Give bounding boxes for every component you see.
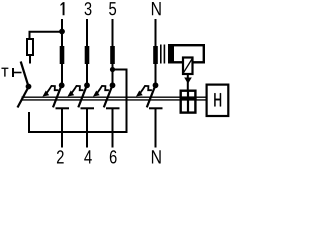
wire pole 1 lower [61,109,63,148]
CT core double line [22,96,206,98]
fixed contact pole N [149,107,163,109]
test switch blade upper [21,62,29,87]
label H indicator [214,93,221,106]
node pole 5 pivot [110,82,116,88]
switching mechanism box [181,91,196,113]
CT secondary winding box [169,45,204,62]
terminal label 3 [85,2,92,15]
release arrow pole 5 [93,86,109,97]
contact blade pole 3 [78,86,86,107]
CT primary bar pole 3 [85,46,90,64]
contact blade pole 5 [104,86,112,107]
node pole1 test tap [59,29,65,35]
release arrow pole N [136,86,152,97]
wire test bottom bus [28,70,127,133]
wire pole 5 lower [112,109,114,148]
wire pole 1 upper [61,19,63,85]
node pole 3 pivot [84,82,90,88]
wire pole 3 lower [86,109,88,148]
test button actuator [12,68,14,77]
wire test fixed contact [28,112,30,132]
trip relay K [183,58,193,75]
test switch blade lower [18,88,29,108]
indicator H box [207,85,229,116]
fixed contact pole 1 [56,107,70,109]
CT core lines at N [160,45,162,64]
terminal label 6 [110,150,117,163]
terminal label N top [152,2,161,15]
wire pole N upper [155,19,157,85]
terminal label 5 [109,2,116,15]
terminal label 1 [61,2,65,15]
CT primary bar pole 1 [60,46,65,64]
node pole 1 pivot [59,82,65,88]
release arrow pole 3 [68,86,84,97]
release arrow pole 1 [43,86,59,97]
wire pole 5 upper [112,19,114,85]
terminal label 4 [84,150,92,163]
actuation arrow to mechanism [187,75,189,91]
fixed contact pole 3 [81,107,95,109]
CT primary bar pole 5 [110,46,115,64]
fixed contact pole 5 [106,107,120,109]
contact blade pole N [147,86,155,107]
contact blade pole 1 [53,86,61,107]
wire resistor lower stub [29,55,31,64]
node pole5 test tap [110,67,115,72]
node test switch pivot [26,84,32,90]
CT primary bar pole N [153,46,158,64]
resistor test [27,39,33,55]
label T test button [2,68,9,77]
wire pole N lower [155,109,157,148]
node pole N pivot [153,82,159,88]
wire pole 3 upper [86,19,88,85]
wire test tap to resistor [30,32,63,39]
terminal label N bottom [152,150,161,163]
terminal label 2 [57,150,64,163]
